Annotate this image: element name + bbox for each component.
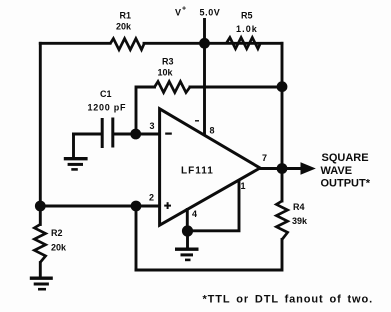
op-amp U1 LF111 triangle <box>160 109 260 225</box>
svg-text:WAVE: WAVE <box>321 165 353 177</box>
svg-text:4: 4 <box>192 209 197 219</box>
svg-text:R2: R2 <box>51 228 63 238</box>
capacitor C1 <box>102 118 113 149</box>
svg-text:5.0V: 5.0V <box>200 8 221 18</box>
svg-text:1: 1 <box>241 181 246 191</box>
svg-text:LF111: LF111 <box>181 166 214 177</box>
svg-text:*TTL or DTL fanout of two.: *TTL or DTL fanout of two. <box>203 294 374 306</box>
svg-text:10k: 10k <box>158 68 174 78</box>
wire right rail from R3 node to output node <box>281 87 284 169</box>
wire right rail from R5 down to R3 node <box>281 43 284 86</box>
svg-text:V: V <box>175 8 181 18</box>
svg-text:39k: 39k <box>292 216 308 226</box>
wire V+ supply stub down to pin 8 of U1 <box>203 20 206 135</box>
ground (C1) <box>64 159 88 170</box>
svg-text:+: + <box>182 6 186 13</box>
svg-text:R5: R5 <box>241 11 253 21</box>
ground (pin 4) <box>175 249 199 260</box>
wire pin 4 ground stem <box>186 231 189 248</box>
wire non-inverting input from left rail to pin 2 <box>40 205 159 208</box>
arrowhead output <box>301 163 315 174</box>
resistor R5 <box>227 38 261 49</box>
svg-text:SQUARE: SQUARE <box>322 152 369 164</box>
wire top horizontal from left rail to R1 <box>40 42 110 45</box>
minus sign at inverting input <box>165 133 172 135</box>
wire C1 right lead to node and pin 3 <box>114 133 159 136</box>
svg-text:1200 pF: 1200 pF <box>88 103 127 113</box>
resistor R2 <box>34 225 45 263</box>
node pin2 / feedback junction <box>131 201 142 212</box>
svg-text:OUTPUT*: OUTPUT* <box>321 178 371 190</box>
svg-text:3: 3 <box>150 121 155 131</box>
resistor R3 <box>155 82 191 93</box>
resistor R1 <box>110 39 144 50</box>
svg-text:1.0k: 1.0k <box>236 24 258 34</box>
wire R3 left leg down to C1 node <box>136 87 155 134</box>
wire feedback vertical up to pin2 node <box>135 206 138 270</box>
wire top horizontal from R1 to R5 corner <box>144 42 282 45</box>
stray dash near pin 8 <box>195 120 199 122</box>
node left rail / R2 junction <box>35 201 46 212</box>
svg-text:2: 2 <box>149 193 154 203</box>
svg-text:R4: R4 <box>293 202 305 212</box>
wire R4 bottom to feedback bottom rail <box>136 240 282 271</box>
wire left rail vertical <box>39 43 42 206</box>
wire output pin 7 from apex to output node <box>260 167 282 170</box>
svg-text:20k: 20k <box>116 22 132 32</box>
wire C1 left lead <box>74 133 101 136</box>
wire pin 1 strobe: down from hypotenuse then left to pin 4 node <box>192 181 239 231</box>
wire R3 right side to right rail <box>190 86 282 89</box>
wire pin 4 stub from triangle bottom edge <box>186 210 189 232</box>
node pin4/pin1/ground junction <box>182 225 193 236</box>
svg-text:R1: R1 <box>120 11 132 21</box>
node C1/R3/pin3 junction <box>130 129 141 140</box>
svg-text:20k: 20k <box>51 243 67 253</box>
wire C1 ground stem <box>72 134 75 157</box>
wire R2 bottom stub to ground <box>39 263 42 277</box>
node supply junction (R1/R5/V+) <box>199 38 210 49</box>
ground (R2) <box>30 278 53 289</box>
node R3/right-rail junction <box>277 81 288 92</box>
svg-text:8: 8 <box>210 126 215 136</box>
svg-text:C1: C1 <box>100 89 112 99</box>
wire R2 top stub <box>39 206 42 225</box>
svg-text:R3: R3 <box>162 57 174 67</box>
svg-text:7: 7 <box>262 153 267 163</box>
wire output to arrow <box>282 167 303 170</box>
plus sign at non-inverting input <box>164 202 171 209</box>
wire R4 top stub <box>281 169 284 202</box>
node output junction (pin7/R4/arrow) <box>277 163 288 174</box>
resistor R4 <box>276 201 287 240</box>
